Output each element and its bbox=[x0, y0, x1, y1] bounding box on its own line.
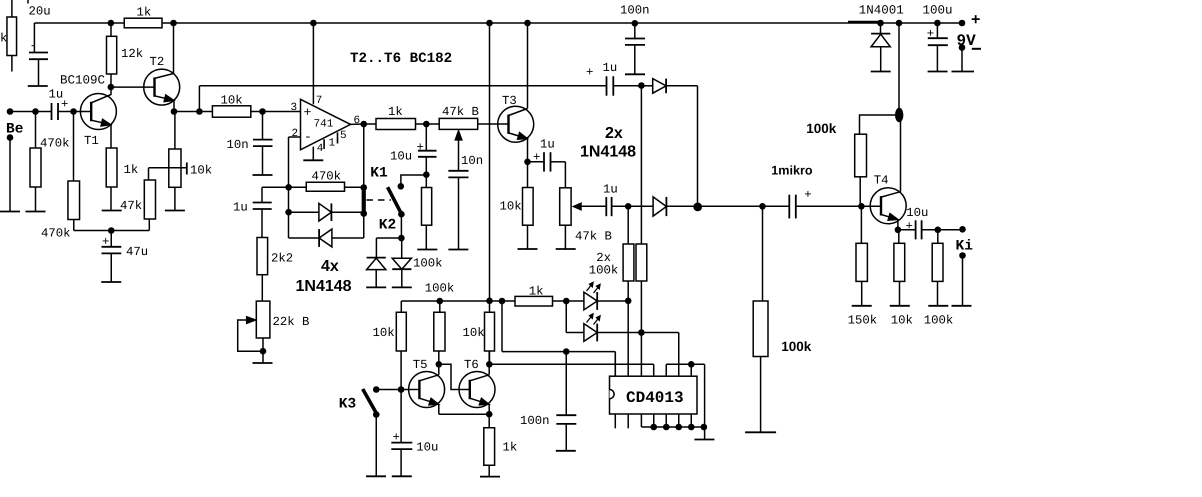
svg-text:-: - bbox=[304, 130, 312, 145]
svg-text:100k: 100k bbox=[589, 264, 619, 278]
svg-text:150k: 150k bbox=[848, 314, 878, 328]
svg-text:10k: 10k bbox=[463, 326, 485, 340]
svg-text:K3: K3 bbox=[339, 397, 356, 413]
svg-text:k: k bbox=[0, 32, 7, 46]
svg-text:470k: 470k bbox=[41, 227, 71, 241]
svg-text:10k: 10k bbox=[500, 200, 522, 214]
svg-text:100k: 100k bbox=[806, 121, 837, 136]
svg-text:+: + bbox=[533, 151, 540, 165]
svg-text:10k: 10k bbox=[190, 164, 212, 178]
svg-text:K1: K1 bbox=[370, 166, 388, 182]
svg-text:100k: 100k bbox=[425, 282, 455, 296]
svg-text:10u: 10u bbox=[906, 206, 928, 220]
svg-text:2: 2 bbox=[292, 128, 299, 140]
svg-text:1u: 1u bbox=[540, 138, 555, 152]
svg-text:10u: 10u bbox=[390, 150, 412, 164]
svg-text:1k: 1k bbox=[388, 105, 403, 119]
svg-text:100u: 100u bbox=[923, 4, 953, 18]
svg-text:BC109C: BC109C bbox=[60, 74, 105, 88]
svg-text:+: + bbox=[393, 430, 400, 444]
svg-text:+: + bbox=[417, 141, 424, 155]
svg-text:+: + bbox=[102, 235, 109, 249]
svg-text:1k: 1k bbox=[137, 6, 152, 20]
svg-text:10k: 10k bbox=[891, 314, 913, 328]
svg-text:10n: 10n bbox=[227, 138, 249, 152]
svg-text:1k: 1k bbox=[124, 163, 139, 177]
svg-text:T1: T1 bbox=[84, 134, 99, 148]
svg-text:1u: 1u bbox=[233, 201, 248, 215]
svg-text:+: + bbox=[61, 98, 68, 112]
svg-text:+: + bbox=[971, 12, 980, 29]
svg-text:Ki: Ki bbox=[956, 239, 974, 255]
svg-text:10n: 10n bbox=[461, 154, 483, 168]
svg-text:9V: 9V bbox=[957, 32, 977, 50]
svg-text:T2: T2 bbox=[150, 55, 165, 69]
svg-text:10u: 10u bbox=[416, 440, 438, 454]
svg-text:2x: 2x bbox=[605, 125, 623, 142]
svg-text:T4: T4 bbox=[874, 174, 889, 188]
svg-text:1: 1 bbox=[329, 138, 336, 150]
svg-text:T5: T5 bbox=[413, 358, 428, 372]
svg-text:100k: 100k bbox=[924, 314, 954, 328]
svg-text:100n: 100n bbox=[520, 414, 550, 428]
svg-text:47k B: 47k B bbox=[442, 105, 479, 119]
svg-text:1u: 1u bbox=[603, 182, 618, 196]
svg-text:12k: 12k bbox=[121, 47, 143, 61]
svg-text:741: 741 bbox=[314, 119, 334, 131]
svg-text:2k2: 2k2 bbox=[271, 252, 293, 266]
svg-text:1k: 1k bbox=[503, 440, 518, 454]
svg-text:CD4013: CD4013 bbox=[626, 389, 684, 407]
svg-text:47u: 47u bbox=[126, 245, 148, 259]
svg-text:+: + bbox=[804, 188, 811, 202]
svg-text:5: 5 bbox=[340, 130, 347, 142]
svg-text:6: 6 bbox=[354, 115, 361, 127]
svg-text:10k: 10k bbox=[373, 326, 395, 340]
svg-text:100k: 100k bbox=[413, 257, 443, 271]
svg-text:1N4001: 1N4001 bbox=[859, 4, 904, 18]
svg-text:4: 4 bbox=[317, 143, 324, 155]
svg-text:+: + bbox=[586, 65, 593, 79]
svg-text:47k B: 47k B bbox=[575, 230, 612, 244]
svg-text:7: 7 bbox=[316, 95, 323, 107]
svg-text:+: + bbox=[927, 27, 934, 41]
svg-text:47k: 47k bbox=[120, 199, 142, 213]
svg-text:-: - bbox=[30, 39, 37, 53]
svg-text:470k: 470k bbox=[312, 170, 342, 184]
svg-text:1N4148: 1N4148 bbox=[296, 278, 352, 295]
svg-text:1u: 1u bbox=[603, 61, 618, 75]
svg-text:T3: T3 bbox=[502, 94, 517, 108]
svg-text:Be: Be bbox=[6, 122, 23, 138]
svg-text:4x: 4x bbox=[321, 258, 339, 275]
svg-text:T2..T6 BC182: T2..T6 BC182 bbox=[350, 51, 452, 67]
svg-text:T6: T6 bbox=[464, 358, 479, 372]
svg-text:10k: 10k bbox=[221, 94, 243, 108]
svg-text:3: 3 bbox=[291, 102, 298, 114]
svg-text:+: + bbox=[906, 220, 913, 234]
svg-text:100n: 100n bbox=[620, 4, 650, 18]
svg-text:100k: 100k bbox=[781, 339, 812, 354]
svg-text:22k B: 22k B bbox=[273, 315, 310, 329]
svg-text:20u: 20u bbox=[29, 5, 51, 19]
svg-text:1k: 1k bbox=[529, 285, 544, 299]
svg-text:470k: 470k bbox=[40, 137, 70, 151]
svg-text:K2: K2 bbox=[379, 218, 396, 234]
svg-text:1mikro: 1mikro bbox=[771, 164, 813, 178]
svg-text:+: + bbox=[304, 105, 312, 120]
svg-text:1N4148: 1N4148 bbox=[580, 144, 636, 161]
